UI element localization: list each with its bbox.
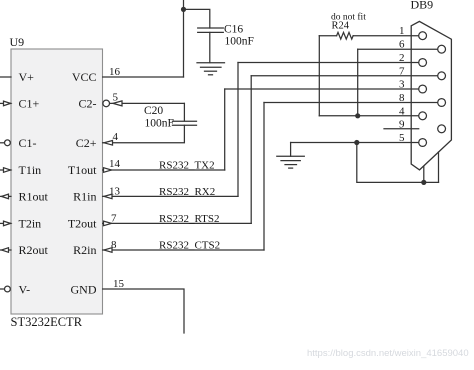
U9 pin name T1in (19, 163, 42, 177)
svg-text:R1in: R1in (73, 190, 96, 204)
wire DB9 pin6 (358, 48, 438, 50)
U9 pin name GND (71, 283, 97, 297)
wire RS232_RX2 (103, 195, 238, 197)
wire DB9 pin7 (251, 75, 438, 77)
wire RTS2 vertical to DB9 pin7 (250, 76, 252, 224)
U9 pin name C2+ (76, 136, 97, 150)
capacitor C20 (173, 121, 197, 125)
DB9 pin number 9 (399, 118, 405, 130)
svg-text:C1-: C1- (19, 136, 37, 150)
DB9 pin number 3 (399, 79, 405, 91)
wire pin5 to ground symbol (290, 143, 292, 157)
wire RX2 vertical to DB9 pin2 (237, 63, 239, 197)
C20 value 100nF (145, 118, 174, 130)
junction VCC / C16 (181, 7, 186, 12)
svg-text:16: 16 (109, 66, 121, 78)
pin arrow T2in (4, 221, 11, 226)
wire DB9 pin2 (238, 62, 419, 64)
DB9 pin number 2 (399, 52, 405, 64)
DB9 pin number 4 (399, 105, 405, 117)
DB9 pin 2 circle (419, 59, 427, 67)
svg-text:VCC: VCC (72, 70, 97, 84)
svg-text:14: 14 (109, 158, 121, 170)
DB9 pin number 5 (399, 132, 405, 144)
U9 value label ST3232ECTR (11, 315, 83, 329)
net label RS232_CTS2 (159, 240, 220, 252)
U9 pin name VCC (72, 70, 97, 84)
svg-text:5: 5 (399, 132, 405, 144)
svg-text:100nF: 100nF (145, 118, 174, 130)
svg-text:DB9: DB9 (411, 0, 434, 12)
svg-text:7: 7 (111, 213, 117, 225)
wire shell ground bus (357, 143, 439, 183)
wire C1- pin stub (0, 142, 4, 144)
svg-text:R24: R24 (332, 21, 350, 32)
svg-text:T1out: T1out (68, 163, 97, 177)
svg-text:8: 8 (399, 92, 405, 104)
wire VCC pin 16 to net (103, 76, 184, 78)
wire GND pin 15 (103, 289, 184, 333)
DB9 pin 5 circle (419, 139, 427, 147)
wire DB9 pin5 (291, 142, 419, 144)
DB9 pin number 7 (399, 65, 405, 77)
wire C1+ pin stub (0, 102, 11, 104)
svg-text:R2out: R2out (19, 243, 49, 257)
wire DB9 shell leg left (423, 167, 425, 183)
wire C20 left leg down (183, 103, 185, 121)
svg-text:100nF: 100nF (225, 36, 254, 48)
ground symbol at DB9 pin5 (277, 156, 305, 168)
pin number 16 (109, 66, 121, 78)
U9 pin name C2- (79, 97, 97, 111)
pin arrow C2- (113, 101, 122, 106)
wire DB9 shell leg right (438, 152, 440, 182)
pin arrow R2out (2, 248, 9, 253)
svg-text:3: 3 (399, 79, 405, 91)
DB9 pin 1 circle (419, 32, 427, 40)
svg-text:9: 9 (399, 118, 405, 130)
svg-text:T2out: T2out (68, 217, 97, 231)
wire VCC branch to C16 (184, 9, 210, 28)
pin circle V- (5, 286, 11, 292)
wire DB9 pin9 stub (384, 128, 419, 130)
C16 value 100nF (225, 36, 254, 48)
svg-text:RS232_RTS2: RS232_RTS2 (159, 213, 219, 225)
DB9 pin 8 circle (438, 99, 446, 107)
wire R24 net vertical to pin4 (318, 36, 320, 116)
wire C2- pin 5 (110, 102, 185, 104)
net label RS232_TX2 (159, 160, 215, 172)
pin arrow R2in (104, 248, 112, 253)
svg-text:6: 6 (399, 39, 405, 51)
junction shell leg / ground bus (421, 180, 426, 185)
svg-text:T1in: T1in (19, 163, 42, 177)
svg-text:T2in: T2in (19, 217, 42, 231)
U9 pin name C1- (19, 136, 37, 150)
svg-text:U9: U9 (10, 35, 25, 49)
U9 pin name R2in (73, 243, 96, 257)
svg-text:C20: C20 (144, 105, 163, 117)
ground symbol at C16 (197, 63, 225, 75)
svg-text:7: 7 (399, 65, 405, 77)
svg-text:RS232_TX2: RS232_TX2 (159, 160, 215, 172)
wire TX2 vertical to DB9 pin3 (224, 89, 226, 170)
capacitor C16 (198, 28, 224, 63)
DB9 pin 9 circle (438, 125, 446, 133)
wire DB9 pin3 (225, 88, 419, 90)
net label RS232_RTS2 (159, 213, 219, 225)
op-amp U9 body (ST3232ECTR IC) (11, 49, 103, 314)
pin arrow T1in (4, 168, 11, 173)
svg-text:R1out: R1out (19, 190, 49, 204)
pin number 15 (GND) (113, 278, 125, 290)
wire V- pin stub (0, 288, 4, 290)
U9 pin name T1out (68, 163, 97, 177)
wire T1in pin stub (0, 169, 11, 171)
C20 reference label (144, 105, 163, 117)
resistor R24 (337, 32, 354, 39)
svg-text:15: 15 (113, 278, 125, 290)
svg-text:C1+: C1+ (19, 97, 40, 111)
DB9 pin number 1 (399, 25, 405, 37)
wire RS232_RTS2 (103, 222, 252, 224)
svg-text:C16: C16 (224, 24, 243, 36)
svg-text:V-: V- (19, 283, 31, 297)
pin circle C1- (5, 140, 11, 146)
U9 pin name R1in (73, 190, 96, 204)
wire RS232_CTS2 (103, 249, 264, 251)
pin number 13 (R1in) (109, 186, 121, 198)
junction pin4 / pin6 tie (355, 113, 360, 118)
wire pin6 tie vertical to pin4 (357, 49, 359, 116)
svg-text:RS232_CTS2: RS232_CTS2 (159, 240, 220, 252)
wire VCC vertical riser (183, 0, 185, 77)
pin arrow T2out (104, 221, 112, 226)
pin arrow C1+ (4, 101, 11, 106)
wire RS232_TX2 (103, 169, 225, 171)
svg-text:4: 4 (399, 105, 405, 117)
svg-text:V+: V+ (19, 70, 35, 84)
DB9 pin number 6 (399, 39, 405, 51)
junction pin5 / shell ground (354, 140, 359, 145)
pin number 5 (C2-) (113, 92, 119, 104)
U9 pin name T2in (19, 217, 42, 231)
pin arrow R1in (104, 194, 112, 199)
DB9 pin 4 circle (419, 112, 427, 120)
svg-text:2: 2 (399, 52, 405, 64)
pin circle C2- (103, 100, 110, 107)
U9 pin name V- (19, 283, 31, 297)
wire R2out pin stub (0, 249, 11, 251)
DB9 pin 3 circle (419, 85, 427, 93)
DB9 connector body (411, 21, 451, 170)
svg-text:C2+: C2+ (76, 136, 97, 150)
U9 pin name V+ (19, 70, 35, 84)
wire DB9 pin4 (319, 115, 418, 117)
pin number 4 (C2+) (113, 131, 119, 143)
DB9 pin 6 circle (438, 45, 446, 53)
DB9 reference label (411, 0, 434, 12)
pin arrow C2+ (104, 141, 113, 146)
wire DB9 pin8 (264, 102, 438, 104)
R24 reference label (332, 21, 350, 32)
wire CTS2 vertical to DB9 pin8 (263, 103, 265, 251)
R24 do-not-fit note (331, 12, 366, 23)
U9 pin name R2out (19, 243, 49, 257)
svg-text:C2-: C2- (79, 97, 97, 111)
svg-text:ST3232ECTR: ST3232ECTR (11, 315, 83, 329)
pin number 8 (R2in) (111, 239, 117, 251)
wire V+ pin stub (0, 76, 11, 78)
svg-text:https://blog.csdn.net/weixin_4: https://blog.csdn.net/weixin_41659040 (307, 348, 469, 359)
pin arrow T1out (104, 168, 112, 173)
svg-text:R2in: R2in (73, 243, 96, 257)
pin arrow R1out (2, 194, 9, 199)
DB9 pin number 8 (399, 92, 405, 104)
wire DB9 pin1 with R24 (319, 35, 418, 37)
C16 reference label (224, 24, 243, 36)
svg-text:RS232_RX2: RS232_RX2 (159, 186, 215, 198)
DB9 pin 7 circle (438, 72, 446, 80)
pin number 14 (T1out) (109, 158, 121, 170)
wire C20 bottom leg (103, 125, 185, 143)
U9 reference designator (10, 35, 25, 49)
U9 pin name R1out (19, 190, 49, 204)
U9 pin name T2out (68, 217, 97, 231)
pin number 7 (T2out) (111, 213, 117, 225)
svg-text:4: 4 (113, 131, 119, 143)
svg-text:1: 1 (399, 25, 405, 37)
wire R1out pin stub (0, 195, 11, 197)
U9 pin name C1+ (19, 97, 40, 111)
svg-text:GND: GND (71, 283, 97, 297)
wire T2in pin stub (0, 222, 11, 224)
net label RS232_RX2 (159, 186, 215, 198)
